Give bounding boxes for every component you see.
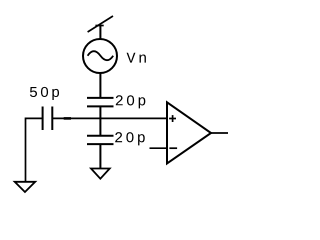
wire (99, 118, 101, 135)
wire (150, 147, 168, 149)
wire (99, 106, 101, 118)
capacitor C1 50p (43, 107, 53, 131)
label 50p (30, 87, 59, 100)
source Vn (83, 39, 117, 73)
antenna A1 (88, 16, 113, 32)
ground (91, 169, 110, 179)
wire (26, 118, 43, 181)
label 20p (115, 132, 145, 145)
capacitor C2 20p (87, 98, 114, 107)
wire node (52, 117, 167, 119)
wire (211, 132, 228, 134)
wire (99, 73, 101, 98)
label 20p (116, 95, 146, 108)
wire (99, 144, 101, 168)
ground (15, 182, 36, 192)
op-amp U1 (167, 102, 211, 163)
label Vn (127, 53, 146, 63)
capacitor C3 20p (87, 136, 114, 144)
junction (64, 117, 71, 120)
wire (99, 26, 101, 39)
